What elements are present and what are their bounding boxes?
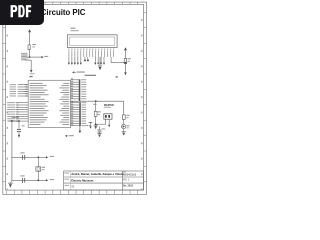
svg-text:André, Daniel, Isabella, Kaiqu: André, Daniel, Isabella, Kaique e Vitori… — [71, 172, 124, 176]
svg-text:PG: 1: PG: 1 — [123, 178, 130, 181]
svg-text:16/04/2015: 16/04/2015 — [123, 173, 137, 177]
svg-text:TE: TE — [71, 185, 74, 188]
svg-text:Nr: 2015: Nr: 2015 — [123, 185, 133, 188]
svg-text:Electric Museum: Electric Museum — [71, 178, 94, 182]
svg-text:MASTER: MASTER — [104, 104, 114, 107]
